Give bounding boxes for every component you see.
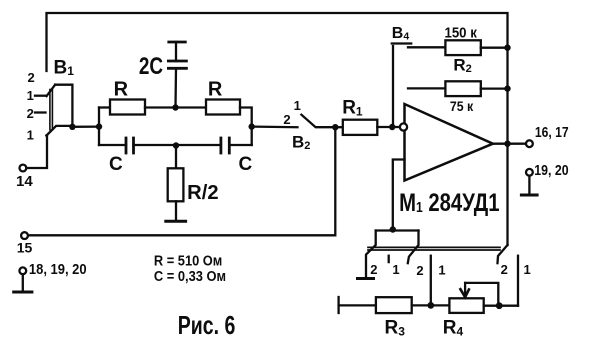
svg-text:М1 284УД1: М1 284УД1: [399, 189, 499, 217]
op-amp U1: [405, 104, 493, 181]
node twin-T top mid: [172, 104, 178, 110]
svg-text:R = 510 Ом: R = 510 Ом: [154, 253, 222, 269]
svg-text:В4: В4: [392, 25, 410, 43]
svg-text:В2: В2: [292, 133, 310, 153]
node twin-T bottom mid: [173, 142, 179, 148]
resistor R (left): [110, 100, 145, 115]
terminal tick R3 left: [337, 297, 339, 313]
wire twin-T left vertical: [98, 108, 100, 146]
wire R3 to node: [412, 304, 450, 306]
wire R right to right vertical: [240, 108, 252, 146]
svg-text:C: C: [109, 154, 123, 175]
wire non-inverting input: [393, 160, 405, 230]
wire top feedback bus: [47, 13, 508, 71]
svg-text:В1: В1: [54, 58, 75, 79]
svg-text:1: 1: [27, 88, 34, 103]
svg-text:R: R: [114, 78, 129, 100]
wire contact1 pole3 down to R4 output: [517, 256, 519, 306]
terminal 15: [21, 232, 28, 239]
svg-text:Рис. 6: Рис. 6: [178, 310, 236, 340]
svg-text:2: 2: [283, 112, 290, 127]
contact stub pole1-1: [388, 256, 390, 262]
switch B3 pole 3 lever: [498, 245, 508, 263]
svg-text:2: 2: [27, 106, 34, 121]
svg-text:14: 14: [16, 173, 33, 190]
svg-text:16, 17: 16, 17: [535, 125, 569, 141]
svg-text:2: 2: [370, 262, 377, 277]
svg-text:1: 1: [294, 98, 301, 113]
terminal 16,17: [526, 140, 533, 147]
resistor R/2: [168, 146, 184, 221]
svg-text:18, 19, 20: 18, 19, 20: [29, 262, 87, 278]
node output junction: [504, 141, 510, 147]
node bottom switch common: [390, 226, 396, 232]
svg-text:R/2: R/2: [187, 182, 218, 204]
svg-text:R3: R3: [385, 318, 406, 339]
resistor R1: [335, 120, 392, 135]
inverting input circle: [400, 123, 407, 130]
wire op-amp output: [493, 143, 526, 145]
capacitor C (right): [176, 138, 252, 153]
svg-text:1: 1: [27, 128, 34, 143]
switch B3 pole 2 lever: [408, 231, 419, 264]
resistor R2 75k: [408, 81, 508, 96]
svg-text:1: 1: [438, 263, 445, 278]
wire R left to mid node: [145, 106, 176, 108]
svg-text:1: 1: [524, 262, 531, 277]
terminal 19,20: [526, 169, 533, 194]
wire B2 node down and left to terminal 15: [28, 127, 335, 235]
svg-text:1: 1: [392, 262, 399, 277]
node R2 150k output: [504, 45, 510, 51]
svg-text:R: R: [208, 78, 223, 100]
svg-text:C: C: [239, 154, 253, 175]
ground B3 pole 1: [358, 277, 374, 280]
node B1 common junction: [69, 124, 75, 130]
resistor R3: [376, 297, 412, 313]
terminal 18,19,20: [19, 267, 26, 291]
node twin-T input: [96, 123, 102, 129]
node R4 wiper junction: [496, 302, 503, 309]
ground 19,20: [521, 194, 537, 197]
svg-text:C = 0,33 Ом: C = 0,33 Ом: [154, 269, 226, 285]
ground 18,19,20: [14, 291, 32, 294]
wire mid node to R right: [176, 106, 207, 108]
resistor R (right): [206, 100, 240, 115]
svg-text:15: 15: [17, 240, 33, 256]
switch B1: [35, 85, 72, 136]
wire right feedback vertical: [506, 48, 508, 245]
wire contact1 pole2 down to R3/R4 node: [430, 256, 432, 306]
terminal 14: [20, 136, 48, 172]
wire R4 output: [484, 305, 518, 307]
node B2 common: [332, 124, 338, 130]
node R2 75k output: [504, 85, 510, 91]
capacitor 2C: [168, 42, 186, 108]
switch B3 mechanical link: [368, 247, 500, 250]
svg-text:R1: R1: [342, 98, 363, 119]
switch B4: [392, 44, 411, 128]
svg-text:R2: R2: [453, 56, 471, 76]
svg-text:2: 2: [416, 263, 423, 278]
svg-text:2C: 2C: [139, 53, 163, 80]
wire twin-T output to B2: [252, 125, 298, 128]
svg-text:2: 2: [501, 262, 508, 277]
wire B1 to twin-T input: [72, 125, 99, 128]
wire to R3: [339, 304, 376, 306]
wire to inverting input: [392, 126, 399, 128]
potentiometer R4: [449, 283, 498, 313]
capacitor C (left): [99, 138, 176, 153]
svg-text:150 к: 150 к: [445, 25, 478, 41]
switch B3 pole 1 lever: [366, 231, 419, 278]
node R3/R4 junction: [427, 302, 434, 309]
node inverting input: [389, 124, 395, 130]
svg-text:19, 20: 19, 20: [534, 163, 568, 179]
svg-text:2: 2: [28, 70, 35, 85]
wire to R left: [99, 106, 110, 108]
svg-text:R4: R4: [443, 318, 464, 339]
resistor R2 150k: [408, 40, 508, 55]
ground under R/2: [166, 220, 186, 223]
svg-text:75 к: 75 к: [450, 98, 474, 114]
node twin-T output: [249, 123, 255, 129]
switch B2: [301, 115, 335, 128]
